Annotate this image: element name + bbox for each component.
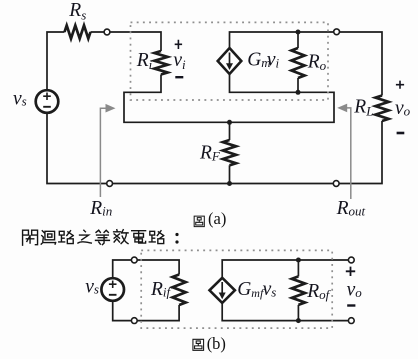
svg-text:(a): (a): [208, 209, 226, 228]
svg-text:(b): (b): [207, 334, 226, 353]
